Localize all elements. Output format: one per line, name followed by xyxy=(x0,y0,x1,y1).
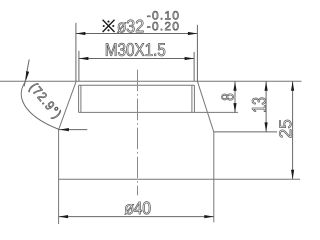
dimension text 8 xyxy=(222,94,234,100)
threaded boss outline xyxy=(79,85,195,112)
cone right flank xyxy=(197,81,213,132)
dimension Ø32 line with arrows xyxy=(76,32,197,35)
cylinder left edge and Ø40 extension line xyxy=(58,129,60,224)
dimension Ø32 extension line right xyxy=(196,25,198,81)
dimension 8 line with arrows xyxy=(233,81,236,112)
cone left flank xyxy=(59,81,76,129)
dimension text ø40 xyxy=(125,202,151,215)
angle dimension arc xyxy=(21,81,59,130)
vertical centerline xyxy=(137,70,139,196)
boss right thread chamfer line xyxy=(191,85,193,112)
bottom surface line xyxy=(59,178,300,180)
dimension 25 line with arrows xyxy=(291,81,294,179)
dimension M30X1.5 extension line left xyxy=(78,51,80,81)
angle dimension bottom leader with arrow xyxy=(59,128,87,131)
dimension text 13 xyxy=(252,98,266,112)
boss bottom edge extended as extension line for dim 8 xyxy=(79,111,238,113)
angle dimension top leader with arrow xyxy=(24,60,29,87)
dimension Ø40 line with arrows xyxy=(59,215,214,218)
angle dimension text (72.9°) xyxy=(29,84,61,119)
dimension Ø32 extension line left xyxy=(75,23,77,81)
reference mark ※ xyxy=(103,20,115,32)
top surface line xyxy=(0,80,302,82)
dimension text 25 xyxy=(279,120,291,138)
dimension 13 line with arrows xyxy=(265,81,268,132)
extension line for dim 13 xyxy=(214,131,277,133)
dimension M30X1.5 line with arrows xyxy=(79,57,194,60)
dimension text ø32 with tolerances xyxy=(117,11,178,32)
boss left thread chamfer line xyxy=(80,85,82,112)
dimension text M30X1.5 xyxy=(106,43,165,56)
dimension M30X1.5 extension line right xyxy=(193,52,195,81)
cylinder right edge and Ø40 extension line xyxy=(213,132,215,222)
